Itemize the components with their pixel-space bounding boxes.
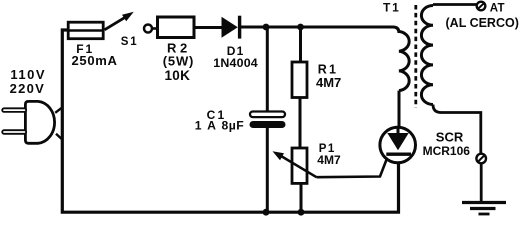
wire C1 column lower [266,128,269,212]
wire C1 column upper [266,27,269,111]
wire secondary top to AT [433,3,477,6]
node junction top C1 [263,24,270,31]
svg-text:S1: S1 [121,36,139,48]
node junction bottom C1 [263,209,270,216]
svg-text:(5W): (5W) [163,53,194,68]
wire plug to cord lower [56,134,63,140]
wire gate P1 to SCR [317,155,389,178]
resistor R2 [158,17,195,38]
svg-text:1N4004: 1N4004 [213,56,258,70]
node junction bottom P1 [298,209,305,216]
plug P (AC mains) [2,101,54,143]
svg-text:4M7: 4M7 [317,153,341,167]
svg-text:10K: 10K [165,68,191,83]
wire [152,27,158,30]
svg-text:250mA: 250mA [72,53,118,68]
transformer T1 primary coil [399,32,409,91]
svg-text:SCR: SCR [436,129,464,144]
diode D1 [222,16,240,39]
transformer T1 secondary coil [421,6,433,105]
capacitor C1 [250,112,286,129]
terminal screw [476,154,486,164]
wire cord + bottom rail [62,30,398,212]
wire R1 top [299,27,302,61]
wire R1 to P1 [299,99,302,150]
P1 wiper arrow [273,151,317,177]
fuse F1 [67,22,105,39]
node junction top R1 [297,24,304,31]
wire to ground [480,163,483,202]
switch contact node [144,25,152,33]
switch S1 lever [105,12,134,30]
svg-text:1 A 8µF: 1 A 8µF [195,118,244,132]
wire R2 to D1 [194,26,223,29]
resistor R1 [292,62,307,98]
svg-text:(AL CERCO): (AL CERCO) [446,16,519,30]
transformer core [414,5,417,108]
svg-text:4M7: 4M7 [316,75,341,90]
wire plug to cord upper [55,107,62,113]
wire SCR anode from primary [398,91,401,128]
svg-text:220V: 220V [10,81,46,96]
ground [462,203,506,215]
svg-text:MCR106: MCR106 [423,144,471,158]
potentiometer P1 [292,148,307,183]
SCR MCR106 [380,127,416,163]
wire secondary bottom elbow [433,105,481,154]
top rail wire [241,27,399,33]
svg-text:AT: AT [490,3,505,15]
terminal AT [477,2,486,11]
svg-text:T1: T1 [383,0,401,14]
wire P1 bottom [300,184,303,213]
